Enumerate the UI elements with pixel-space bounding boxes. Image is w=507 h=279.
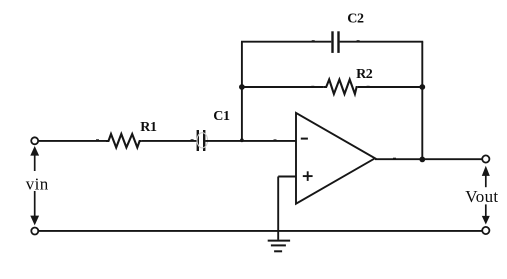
wire ground vertical — [277, 177, 279, 240]
wire C2 to top right corner — [340, 41, 424, 43]
wire top left to C2 — [241, 41, 331, 43]
wire bottom rail — [39, 230, 482, 232]
capacitor C1 — [198, 130, 204, 151]
resistor R1 — [106, 134, 142, 148]
terminal Vout bottom — [482, 227, 489, 234]
tick anchor left of C2 — [312, 40, 315, 42]
terminal Vout top — [482, 155, 489, 162]
wire R2 row left segment — [242, 86, 324, 88]
svg-text:C2: C2 — [347, 12, 364, 27]
vin down arrow — [30, 191, 39, 225]
wire feedback left vertical leg — [241, 42, 243, 142]
wire output from op-amp to Vout terminal — [375, 158, 482, 160]
tick anchor right of C2 — [357, 40, 360, 42]
Vout down arrow — [482, 204, 490, 224]
svg-text:R2: R2 — [356, 67, 373, 82]
Vout up arrow — [482, 166, 490, 188]
tick anchor left of R2 — [311, 86, 314, 88]
capacitor C2 — [333, 31, 339, 53]
ground — [268, 241, 290, 252]
terminal input top (vin +) — [31, 137, 38, 144]
wire input lead from terminal to R1 — [39, 140, 106, 142]
tick anchor inverting input wire — [274, 139, 277, 141]
wire R2 to right leg — [358, 86, 423, 88]
wire non-inverting input to ground stub horizontal — [278, 176, 296, 178]
faint ghost arc at C1 — [197, 133, 208, 148]
svg-text:R1: R1 — [140, 120, 157, 135]
resistor R2 — [324, 80, 358, 95]
op-amp non-inverting input plus sign — [303, 171, 313, 181]
tick anchor output wire — [393, 158, 396, 160]
node junction R2 left — [239, 84, 245, 90]
svg-text:vin: vin — [26, 175, 49, 194]
tick anchor right of R2 — [367, 86, 370, 88]
svg-text:Vout: Vout — [465, 187, 498, 206]
op-amp U1 — [296, 113, 375, 204]
terminal input bottom — [31, 228, 38, 235]
wire R1 to C1 — [142, 140, 197, 142]
node junction R2 right — [419, 84, 425, 90]
op-amp inverting input minus sign — [301, 138, 308, 140]
node T-junction at inverting input — [240, 138, 244, 142]
svg-text:C1: C1 — [213, 109, 230, 124]
node junction output — [419, 157, 425, 163]
wire right vertical leg — [421, 42, 423, 160]
tick anchor left of C1 — [191, 139, 194, 141]
vin up arrow — [30, 146, 39, 171]
tick anchor left of R1 — [96, 139, 99, 141]
wire C1 to op-amp inverting input — [205, 140, 295, 142]
